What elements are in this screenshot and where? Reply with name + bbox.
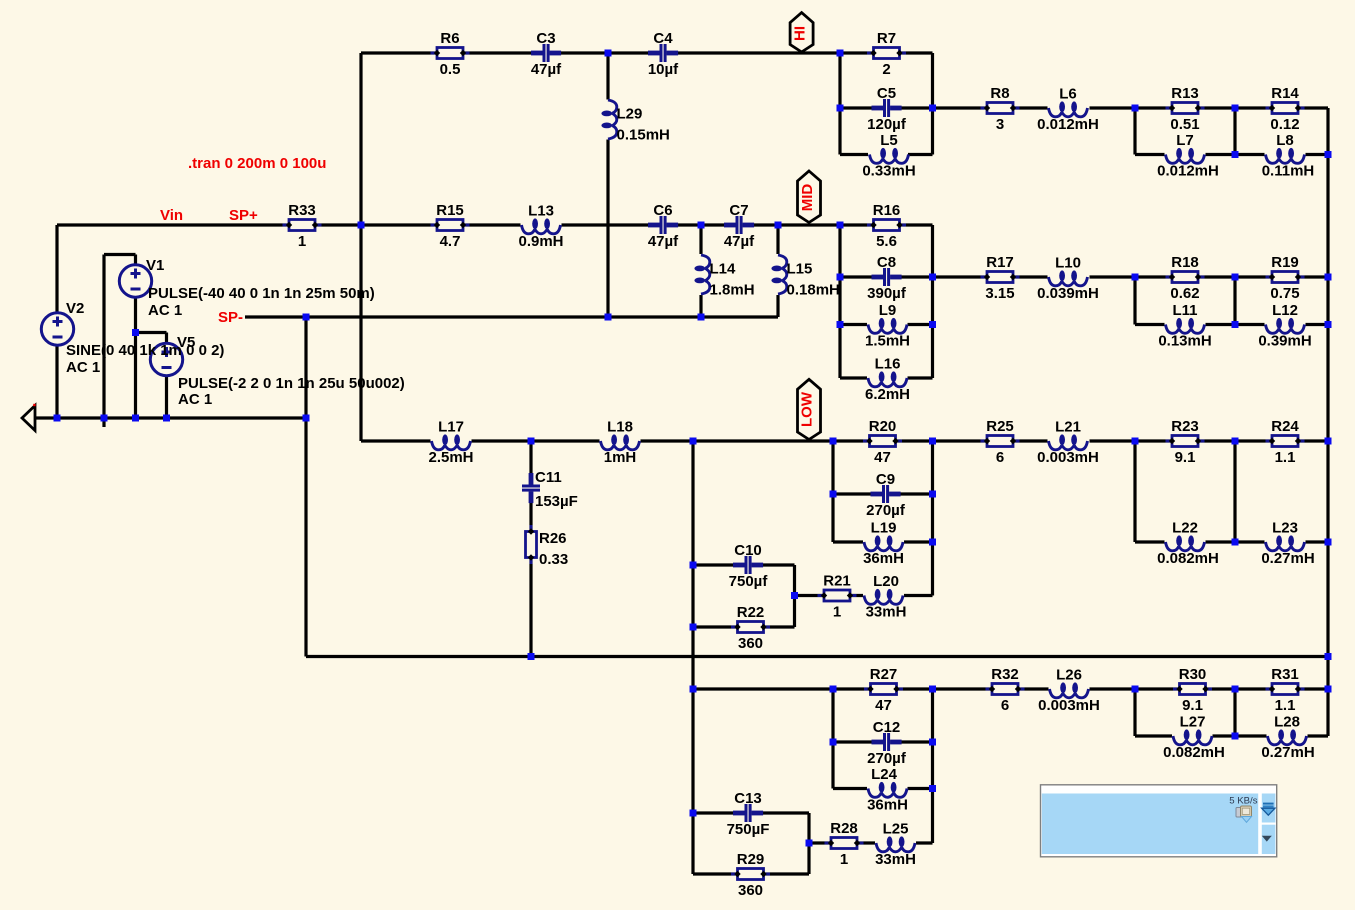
wire <box>641 439 933 442</box>
wire <box>1090 275 1329 278</box>
svg-text:L23: L23 <box>1272 520 1298 537</box>
junction <box>929 539 936 546</box>
svg-text:6: 6 <box>1001 697 1009 714</box>
svg-text:47: 47 <box>874 449 891 466</box>
resistor R26 <box>526 525 569 568</box>
svg-text:1: 1 <box>840 851 848 868</box>
junction <box>1232 105 1239 112</box>
wire <box>838 53 841 155</box>
svg-text:R7: R7 <box>877 30 896 47</box>
svg-text:0.012mH: 0.012mH <box>1037 116 1099 133</box>
svg-text:0.27mH: 0.27mH <box>1261 550 1314 567</box>
wire <box>1306 153 1329 156</box>
svg-text:L18: L18 <box>607 419 633 436</box>
inductor L10 <box>1037 255 1099 303</box>
svg-text:SP+: SP+ <box>229 207 258 224</box>
resistor R18 <box>1166 254 1205 302</box>
resistor R16 <box>867 202 906 250</box>
junction <box>132 329 139 336</box>
wire <box>304 317 307 657</box>
svg-text:0.33mH: 0.33mH <box>862 163 915 180</box>
svg-text:1: 1 <box>833 604 841 621</box>
svg-text:R31: R31 <box>1271 666 1299 683</box>
svg-text:L28: L28 <box>1274 714 1300 731</box>
svg-text:R24: R24 <box>1271 418 1299 435</box>
wire <box>1090 439 1329 442</box>
svg-text:L11: L11 <box>1172 302 1197 319</box>
wire <box>1233 441 1236 542</box>
svg-text:C3: C3 <box>536 30 555 47</box>
capacitor C11 <box>521 469 578 510</box>
resistor R25 <box>981 418 1020 466</box>
wire <box>693 811 809 814</box>
svg-text:MID: MID <box>799 184 816 212</box>
wire <box>833 540 863 543</box>
svg-text:R32: R32 <box>991 666 1019 683</box>
wire <box>55 225 58 418</box>
resistor R8 <box>981 85 1020 133</box>
junction <box>775 222 782 229</box>
junction <box>528 438 535 445</box>
svg-text:47µf: 47µf <box>648 233 679 250</box>
inductor L22 <box>1157 520 1219 568</box>
svg-text:R17: R17 <box>986 254 1014 271</box>
wire <box>165 333 168 419</box>
svg-text:SP-: SP- <box>218 309 243 326</box>
wire <box>831 441 834 542</box>
wire <box>57 223 521 226</box>
inductor L15 <box>771 255 839 299</box>
resistor R17 <box>981 254 1020 302</box>
svg-text:0.5: 0.5 <box>440 61 461 78</box>
inductor L14 <box>694 255 754 299</box>
wire <box>35 416 306 419</box>
svg-text:390µf: 390µf <box>867 285 907 302</box>
junction <box>1325 274 1332 281</box>
junction <box>929 321 936 328</box>
junction <box>929 274 936 281</box>
svg-text:C4: C4 <box>653 30 673 47</box>
svg-text:1.5mH: 1.5mH <box>865 333 910 350</box>
junction <box>1325 438 1332 445</box>
junction <box>837 105 844 112</box>
inductor L11 <box>1158 302 1211 350</box>
resistor R31 <box>1266 666 1305 714</box>
junction <box>1325 539 1332 546</box>
resistor R22 <box>731 604 770 652</box>
resistor R33 <box>283 202 322 250</box>
inductor L18 <box>601 419 640 467</box>
svg-text:R30: R30 <box>1179 666 1207 683</box>
resistor R24 <box>1266 418 1305 466</box>
svg-text:R28: R28 <box>830 820 858 837</box>
svg-text:L10: L10 <box>1055 255 1081 272</box>
svg-text:360: 360 <box>738 635 763 652</box>
wire <box>931 53 934 155</box>
junction <box>1132 274 1139 281</box>
svg-text:33mH: 33mH <box>866 604 907 621</box>
svg-text:L6: L6 <box>1059 86 1077 103</box>
capacitor C10 <box>729 542 769 590</box>
junction <box>806 840 813 847</box>
resistor R28 <box>825 820 864 868</box>
svg-text:AC 1: AC 1 <box>66 359 100 376</box>
svg-text:9.1: 9.1 <box>1175 449 1196 466</box>
svg-text:0.15mH: 0.15mH <box>617 127 670 144</box>
svg-text:6: 6 <box>996 449 1004 466</box>
inductor L16 <box>865 356 910 404</box>
resistor R7 <box>867 30 906 78</box>
svg-text:L14: L14 <box>710 261 737 278</box>
svg-text:47µf: 47µf <box>531 61 562 78</box>
svg-text:L17: L17 <box>438 419 464 436</box>
capacitor C4 <box>648 30 679 78</box>
junction <box>1232 151 1239 158</box>
svg-text:153µF: 153µF <box>535 493 578 510</box>
junction <box>830 686 837 693</box>
capacitor C3 <box>531 30 562 78</box>
svg-text:3: 3 <box>996 116 1004 133</box>
wire <box>916 841 933 844</box>
svg-text:R22: R22 <box>737 604 765 621</box>
resistor R29 <box>731 851 770 899</box>
wire <box>1090 106 1329 109</box>
junction <box>791 592 798 599</box>
svg-text:0.33: 0.33 <box>539 551 568 568</box>
svg-text:L27: L27 <box>1180 714 1206 731</box>
svg-text:0.75: 0.75 <box>1270 285 1299 302</box>
svg-text:C13: C13 <box>734 790 762 807</box>
wire <box>361 51 933 54</box>
wire <box>136 331 167 334</box>
svg-text:L24: L24 <box>871 766 898 783</box>
svg-text:R6: R6 <box>440 30 459 47</box>
wire <box>908 787 933 790</box>
svg-text:0.11mH: 0.11mH <box>1262 163 1315 180</box>
wire <box>1135 734 1172 737</box>
svg-text:AC 1: AC 1 <box>178 391 212 408</box>
wire <box>134 255 137 419</box>
junction <box>929 438 936 445</box>
resistor R14 <box>1266 85 1305 133</box>
svg-text:0.13mH: 0.13mH <box>1158 333 1211 350</box>
junction <box>1232 733 1239 740</box>
svg-text:750µf: 750µf <box>729 573 769 590</box>
svg-text:HI: HI <box>791 26 808 41</box>
wire <box>833 492 933 495</box>
svg-text:3.15: 3.15 <box>985 285 1014 302</box>
svg-text:R20: R20 <box>869 418 897 435</box>
svg-text:10µf: 10µf <box>648 61 679 78</box>
junction <box>1132 105 1139 112</box>
wire <box>1206 153 1265 156</box>
wire <box>1133 689 1136 736</box>
junction <box>358 222 365 229</box>
wire <box>102 255 105 428</box>
svg-text:Vin: Vin <box>160 207 183 224</box>
wire <box>306 655 1328 658</box>
svg-text:33mH: 33mH <box>875 851 916 868</box>
wire <box>359 53 362 441</box>
svg-text:C12: C12 <box>873 719 901 736</box>
inductor L28 <box>1261 714 1314 762</box>
svg-text:0.27mH: 0.27mH <box>1261 744 1314 761</box>
wire <box>904 540 933 543</box>
wire <box>807 813 810 874</box>
junction <box>1132 686 1139 693</box>
wire <box>606 53 609 100</box>
resistor R30 <box>1173 666 1212 714</box>
svg-text:R13: R13 <box>1171 85 1199 102</box>
junction <box>1232 321 1239 328</box>
svg-text:36mH: 36mH <box>863 550 904 567</box>
wire <box>776 225 779 254</box>
voltage source V5 <box>150 343 182 375</box>
net flag HI <box>790 13 813 52</box>
svg-text:2: 2 <box>882 61 890 78</box>
svg-text:0.082mH: 0.082mH <box>1157 550 1219 567</box>
svg-text:0.9mH: 0.9mH <box>518 233 563 250</box>
inductor L29 <box>601 100 669 144</box>
svg-text:0.18mH: 0.18mH <box>787 282 840 299</box>
junction <box>1325 653 1332 660</box>
inductor L7 <box>1157 132 1219 180</box>
svg-text:1.1: 1.1 <box>1275 449 1296 466</box>
svg-text:R21: R21 <box>823 573 851 590</box>
wire <box>908 376 933 379</box>
junction <box>830 491 837 498</box>
svg-text:L20: L20 <box>873 573 899 590</box>
svg-text:L15: L15 <box>787 261 813 278</box>
wire <box>1206 540 1265 543</box>
voltage source V5 labels <box>177 334 405 408</box>
svg-text:5 KB/s: 5 KB/s <box>1229 795 1257 806</box>
svg-text:36mH: 36mH <box>867 797 908 814</box>
voltage source V2 <box>41 313 73 345</box>
svg-text:L5: L5 <box>880 132 898 149</box>
svg-text:C5: C5 <box>877 85 896 102</box>
svg-text:R27: R27 <box>870 666 898 683</box>
svg-text:0.039mH: 0.039mH <box>1037 285 1099 302</box>
junction <box>929 785 936 792</box>
wire <box>908 153 933 156</box>
junction <box>929 739 936 746</box>
svg-text:SINE(0 40 1k 1m 0 0 2): SINE(0 40 1k 1m 0 0 2) <box>66 342 224 359</box>
svg-text:PULSE(-40 40 0 1n 1n 25m 50m): PULSE(-40 40 0 1n 1n 25m 50m) <box>148 285 375 302</box>
junction <box>929 105 936 112</box>
svg-text:V5: V5 <box>177 334 195 351</box>
voltage source V1 labels <box>146 257 375 319</box>
junction <box>163 415 170 422</box>
wire <box>245 315 778 318</box>
junction <box>690 624 697 631</box>
resistor R27 <box>864 666 903 714</box>
svg-text:1mH: 1mH <box>604 449 637 466</box>
svg-text:0.39mH: 0.39mH <box>1258 333 1311 350</box>
wire <box>931 225 934 378</box>
inductor L6 <box>1037 86 1099 134</box>
junction <box>528 653 535 660</box>
junction <box>929 491 936 498</box>
resistor R19 <box>1266 254 1305 302</box>
junction <box>830 739 837 746</box>
junction <box>1232 438 1239 445</box>
svg-text:750µF: 750µF <box>727 821 770 838</box>
capacitor C6 <box>648 202 679 250</box>
wire <box>809 841 875 844</box>
inductor L8 <box>1262 132 1315 180</box>
inductor L21 <box>1037 419 1099 467</box>
net flag MID <box>798 171 821 223</box>
inductor L12 <box>1258 302 1311 350</box>
wire <box>1133 277 1136 325</box>
resistor R15 <box>431 202 470 250</box>
capacitor C12 <box>867 719 907 767</box>
resistor R13 <box>1166 85 1205 133</box>
svg-text:L26: L26 <box>1056 667 1082 684</box>
inductor L17 <box>428 419 473 467</box>
wire <box>693 625 795 628</box>
svg-text:6.2mH: 6.2mH <box>865 386 910 403</box>
junction <box>837 50 844 57</box>
wire <box>795 594 864 597</box>
inductor L25 <box>875 821 916 869</box>
svg-text:C9: C9 <box>876 471 895 488</box>
capacitor C8 <box>867 254 907 302</box>
wire <box>931 689 934 843</box>
junction <box>1325 321 1332 328</box>
svg-text:R18: R18 <box>1171 254 1199 271</box>
svg-text:L12: L12 <box>1272 302 1298 319</box>
wire <box>1206 323 1265 326</box>
inductor L20 <box>864 573 906 621</box>
wire <box>933 439 1048 442</box>
inductor L19 <box>863 520 904 568</box>
junction <box>1132 438 1139 445</box>
wire <box>840 376 867 379</box>
junction <box>830 438 837 445</box>
svg-text:0.12: 0.12 <box>1270 116 1299 133</box>
wire <box>1233 277 1236 325</box>
junction <box>698 314 705 321</box>
wire <box>793 565 796 627</box>
svg-text:L25: L25 <box>883 821 909 838</box>
svg-text:0.62: 0.62 <box>1170 285 1199 302</box>
junction <box>690 562 697 569</box>
inductor L24 <box>867 766 908 814</box>
svg-text:R14: R14 <box>1271 85 1299 102</box>
inductor L27 <box>1163 714 1225 762</box>
inductor L23 <box>1261 520 1314 568</box>
junction <box>929 686 936 693</box>
junction <box>690 810 697 817</box>
svg-text:47: 47 <box>875 697 892 714</box>
junction <box>698 222 705 229</box>
svg-text:360: 360 <box>738 882 763 899</box>
svg-text:2.5mH: 2.5mH <box>428 449 473 466</box>
capacitor C9 <box>866 471 906 519</box>
junction <box>837 321 844 328</box>
junction <box>605 314 612 321</box>
download speed widget <box>1041 785 1277 857</box>
wire <box>904 594 933 597</box>
inductor L13 <box>518 203 563 251</box>
svg-text:C10: C10 <box>734 542 762 559</box>
svg-text:LOW: LOW <box>798 391 815 427</box>
wire <box>840 106 1048 109</box>
resistor R6 <box>431 30 470 78</box>
svg-text:R26: R26 <box>539 530 567 547</box>
wire <box>606 140 609 318</box>
svg-text:L9: L9 <box>879 302 897 319</box>
wire <box>693 563 795 566</box>
svg-text:1: 1 <box>298 233 306 250</box>
svg-text:R33: R33 <box>288 202 316 219</box>
svg-text:5.6: 5.6 <box>876 233 897 250</box>
svg-text:270µf: 270µf <box>867 750 907 767</box>
wire <box>1135 323 1165 326</box>
wire <box>529 441 532 657</box>
svg-text:V2: V2 <box>66 300 84 317</box>
wire <box>831 689 834 789</box>
wire <box>1233 108 1236 155</box>
junction <box>837 222 844 229</box>
wire <box>361 439 431 442</box>
svg-text:0.003mH: 0.003mH <box>1037 449 1099 466</box>
wire <box>562 223 933 226</box>
resistor R23 <box>1166 418 1205 466</box>
wire <box>833 787 867 790</box>
svg-text:C8: C8 <box>877 254 896 271</box>
svg-text:.tran 0 200m 0 100u: .tran 0 200m 0 100u <box>188 155 326 172</box>
capacitor C5 <box>867 85 907 133</box>
svg-text:R15: R15 <box>436 202 464 219</box>
wire <box>104 253 136 256</box>
svg-text:L7: L7 <box>1176 132 1194 149</box>
wire <box>1213 734 1267 737</box>
wire <box>1308 734 1329 737</box>
svg-text:L16: L16 <box>875 356 901 373</box>
svg-text:1.1: 1.1 <box>1275 697 1296 714</box>
svg-text:0.51: 0.51 <box>1170 116 1199 133</box>
junction <box>303 415 310 422</box>
svg-text:0.003mH: 0.003mH <box>1038 697 1100 714</box>
inductor L5 <box>862 132 915 180</box>
wire <box>1135 540 1165 543</box>
svg-text:C7: C7 <box>729 202 748 219</box>
junction <box>101 415 108 422</box>
svg-text:L29: L29 <box>617 106 643 123</box>
wire <box>1306 323 1329 326</box>
junction <box>690 686 697 693</box>
svg-text:C6: C6 <box>653 202 672 219</box>
wire <box>776 295 779 317</box>
svg-text:L22: L22 <box>1172 520 1198 537</box>
junction <box>605 50 612 57</box>
inductor L9 <box>865 302 910 350</box>
svg-text:L21: L21 <box>1055 419 1081 436</box>
wire <box>840 275 1048 278</box>
wire <box>1090 687 1329 690</box>
svg-text:0.082mH: 0.082mH <box>1163 744 1225 761</box>
junction <box>303 314 310 321</box>
resistor R32 <box>986 666 1025 714</box>
net flag LOW <box>798 379 821 439</box>
wire <box>1306 540 1329 543</box>
svg-text:1.8mH: 1.8mH <box>710 282 755 299</box>
wire <box>699 225 702 254</box>
wire <box>472 439 600 442</box>
